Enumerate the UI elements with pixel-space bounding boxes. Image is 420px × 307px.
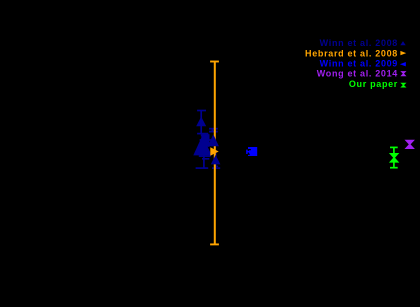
errorbar D bottom cap [196,167,209,169]
blue marker block (jagged left edge) [247,147,258,156]
legend [305,38,406,89]
legend marker green hourglass [400,83,406,88]
marker E up-triangle [211,155,221,165]
orange top cap [210,61,219,63]
errorbar D vertical line [203,138,205,168]
blue horizontal errorbar [247,151,257,153]
orange errorbar vertical line [214,62,216,245]
errorbar A vertical line [200,111,202,134]
legend marker navy up-triangle [400,41,405,45]
cap y158.8 [202,158,209,160]
marker A up-triangle [196,117,206,127]
svg-text:Our paper: Our paper [349,79,398,89]
svg-text:Winn et al. 2009: Winn et al. 2009 [320,59,398,69]
green hourglass marker [389,153,399,163]
marker D up-triangle [208,134,219,146]
blue left cap [246,150,248,154]
errorbar B top cap [209,128,218,130]
svg-text:Wong et al. 2014: Wong et al. 2014 [317,69,398,79]
orange marker right-triangle [210,147,218,155]
legend marker orange right-triangle [400,51,406,55]
errorbar B bottom cap [209,131,218,133]
merged caps block [203,134,210,147]
errorbar E bottom cap [212,167,220,169]
blue series: Winn et al. 2009 [247,147,258,156]
errorbar C vertical line [201,134,203,153]
svg-text:Winn et al. 2008: Winn et al. 2008 [320,38,398,48]
navy triangle markers [193,117,220,165]
green series: Our paper [389,147,399,167]
navy series error bars: Winn et al. 2008 [196,111,221,169]
orange error bar: Hebrard et al. 2008 [210,62,219,245]
purple hourglass marker [405,140,415,149]
legend marker purple hourglass [400,71,406,76]
legend marker blue left-triangle [400,62,406,66]
cap y156.1 [199,155,211,157]
small cap y166.3 [214,165,218,167]
green top cap [390,146,398,148]
green bottom cap [390,167,398,169]
cap y140 [200,139,213,141]
errorbar A top cap [197,110,206,112]
errorbar E vertical line [215,150,217,168]
svg-text:Hebrard et al. 2008: Hebrard et al. 2008 [305,49,398,59]
big marker C up-triangle [193,136,211,156]
green errorbar vertical line [393,147,395,167]
orange bottom cap [210,243,219,245]
cap y143 [200,142,210,144]
errorbar A bottom cap [197,133,208,135]
errorbar B vertical line [211,129,213,132]
purple series: Wong et al. 2014 [405,140,415,149]
cap y135.4 [201,134,209,136]
